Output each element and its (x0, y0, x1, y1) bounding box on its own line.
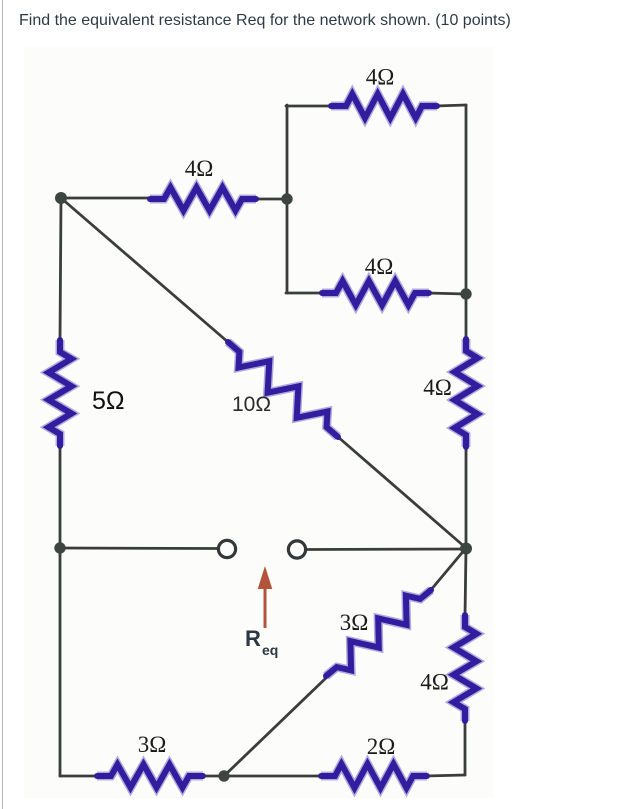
svg-text:R: R (245, 626, 261, 651)
svg-text:4Ω: 4Ω (420, 670, 449, 695)
svg-text:2Ω: 2Ω (367, 734, 396, 759)
svg-text:3Ω: 3Ω (340, 610, 369, 635)
svg-text:4Ω: 4Ω (366, 65, 395, 90)
svg-text:5Ω: 5Ω (92, 387, 125, 415)
svg-text:4Ω: 4Ω (365, 254, 394, 279)
svg-text:4Ω: 4Ω (185, 156, 214, 181)
svg-text:4Ω: 4Ω (423, 375, 452, 400)
svg-text:10Ω: 10Ω (232, 393, 271, 416)
svg-text:eq: eq (262, 642, 278, 658)
svg-text:3Ω: 3Ω (138, 732, 167, 757)
